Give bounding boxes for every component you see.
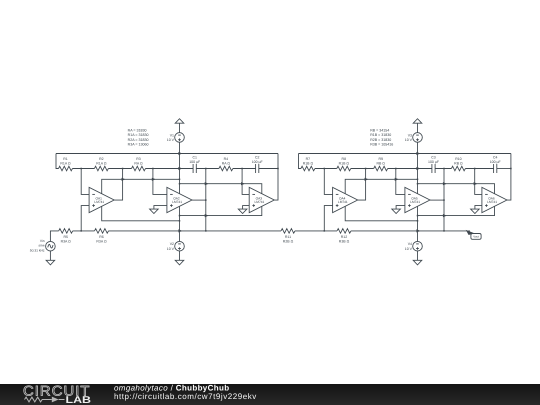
svg-text:LM741: LM741 <box>255 200 265 204</box>
resistor R12 <box>337 229 351 234</box>
wire OA3 Vplus from supply rail <box>180 184 262 194</box>
svg-text:R3A Ω: R3A Ω <box>96 240 107 244</box>
svg-text:R1A Ω: R1A Ω <box>60 162 71 166</box>
svg-text:10 V: 10 V <box>405 247 413 251</box>
wire OA3 Vminus to supply rail <box>180 206 262 215</box>
wire hop marks <box>122 152 478 233</box>
svg-text:C2: C2 <box>255 156 260 160</box>
svg-text:RA Ω: RA Ω <box>134 162 143 166</box>
ground OA6 plus input <box>471 206 482 214</box>
svg-text:RB Ω: RB Ω <box>376 162 385 166</box>
svg-text:R1A = 31830: R1A = 31830 <box>128 133 149 137</box>
resistor R3 <box>132 166 146 171</box>
svg-text:R2A = 31830: R2A = 31830 <box>128 138 149 142</box>
wire bottom rail R6 to R11 <box>109 230 282 232</box>
ground below V4 <box>413 251 422 265</box>
wire top feedback rail right stage <box>299 153 511 155</box>
ground OA5 plus input <box>392 206 405 214</box>
wire R1-R2 <box>73 168 95 170</box>
wire R4-C2 <box>233 168 256 170</box>
svg-text:R1B = 31830: R1B = 31830 <box>370 133 391 137</box>
svg-text:R10: R10 <box>455 157 461 161</box>
svg-text:10 V: 10 V <box>167 247 175 251</box>
op-amp OA3 <box>249 187 274 212</box>
wire R10-C4 <box>465 168 493 170</box>
label OA2 <box>172 196 182 204</box>
svg-text:LM741: LM741 <box>338 200 348 204</box>
capacitor C4 <box>494 164 497 173</box>
resistor R6 <box>95 229 109 234</box>
resistor R1 <box>59 166 73 171</box>
resistor R8 <box>337 166 351 171</box>
svg-text:LM741: LM741 <box>410 200 420 204</box>
svg-text:R3B = 105416: R3B = 105416 <box>370 143 393 147</box>
ground below V2 <box>175 251 184 265</box>
wire OA4 Vminus pin to supply rail <box>345 206 417 221</box>
resistor R4 <box>219 166 233 171</box>
svg-text:RB = 34154: RB = 34154 <box>370 128 389 132</box>
logo resistor zigzag <box>25 397 52 402</box>
svg-text:100 µF: 100 µF <box>189 160 200 164</box>
wire OA2 Vminus supply rail lower to V2 <box>179 206 181 241</box>
svg-text:LM741: LM741 <box>172 200 182 204</box>
wire node R3C1 down to OA2 minus <box>153 169 167 195</box>
label OA3 <box>255 196 265 204</box>
node junction dots <box>80 168 511 232</box>
wire C3R10 node down to bottom rail <box>443 169 445 231</box>
ground OA3 plus input <box>238 206 249 214</box>
wire node R9C3 down to OA5 minus <box>396 169 405 195</box>
svg-text:Vout: Vout <box>473 235 479 239</box>
wire OA6 Vminus to supply rail <box>418 206 495 215</box>
ground flipped above V3 <box>413 119 422 133</box>
wire R3-C1 <box>146 168 194 170</box>
wire C3-R10 <box>435 168 451 170</box>
wire node R10C4 down to OA6 minus <box>475 169 482 195</box>
svg-text:RA Ω: RA Ω <box>222 162 231 166</box>
resistor R5 <box>59 229 73 234</box>
svg-text:R2B = 31830: R2B = 31830 <box>370 138 391 142</box>
wire OA5 output to C3R10 node vertical <box>430 199 444 201</box>
wire OA1 Vplus pin to supply rail <box>102 179 180 194</box>
svg-text:R2B Ω: R2B Ω <box>283 240 294 244</box>
svg-text:V1: V1 <box>170 133 174 137</box>
svg-text:R6: R6 <box>99 235 104 239</box>
svg-text:R8: R8 <box>342 157 347 161</box>
ground flipped above V1 <box>175 119 184 133</box>
svg-text:R1: R1 <box>63 157 68 161</box>
svg-text:10 V: 10 V <box>405 138 413 142</box>
svg-text:http://circuitlab.com/cw7t9jv2: http://circuitlab.com/cw7t9jv229ekv <box>114 392 257 401</box>
label Vin <box>30 239 45 253</box>
wire node R7R8 down to OA4 minus <box>324 169 332 195</box>
svg-text:LM741: LM741 <box>487 200 497 204</box>
svg-text:R1B Ω: R1B Ω <box>339 162 350 166</box>
wire OA2 output to C1R4 node vertical <box>192 199 206 201</box>
wire right edge OA3 output to top rail <box>274 154 278 201</box>
voltage source V4 <box>413 241 423 251</box>
op-amp OA6 <box>482 187 507 212</box>
wire C1R4 node down to bottom rail <box>205 169 207 231</box>
logo arrow <box>52 397 59 403</box>
wire R11-R12 <box>295 230 337 232</box>
resistor R7 <box>301 166 315 171</box>
wire R2-R3 <box>108 168 131 170</box>
resistor R9 <box>374 166 388 171</box>
svg-text:R1B Ω: R1B Ω <box>303 162 314 166</box>
svg-text:LM741: LM741 <box>94 200 104 204</box>
voltage source V3 <box>413 133 423 143</box>
svg-text:C1: C1 <box>192 156 197 160</box>
voltage source V2 <box>175 241 185 251</box>
wire left edge drop right stage <box>299 154 301 169</box>
capacitor C3 <box>432 164 435 173</box>
op-amp OA2 <box>167 187 192 212</box>
wire R7-R8 <box>315 168 337 170</box>
op-amp OA4 <box>333 187 358 212</box>
wire R8-R9 <box>351 168 374 170</box>
svg-text:R5: R5 <box>63 235 68 239</box>
svg-text:R3A = 13060: R3A = 13060 <box>128 143 149 147</box>
svg-text:100 µF: 100 µF <box>490 160 501 164</box>
svg-text:R7: R7 <box>306 157 311 161</box>
svg-text:10 V: 10 V <box>167 138 175 142</box>
wire R12 to Vout tap <box>351 230 470 232</box>
voltage source V1 <box>175 133 185 143</box>
wire R9-C3 <box>388 168 432 170</box>
wire C1-R4 <box>196 168 219 170</box>
svg-text:V2: V2 <box>170 242 174 246</box>
svg-text:LAB: LAB <box>66 395 92 405</box>
svg-text:R12: R12 <box>341 235 347 239</box>
wire V1 to OA2 Vplus supply rail upper <box>179 142 181 194</box>
wire node R4C2 down to OA3 minus <box>242 169 249 195</box>
op-amp OA5 <box>405 187 430 212</box>
wire R5-R6 <box>73 230 95 232</box>
label OA5 <box>410 196 420 204</box>
wire OA6 Vplus from supply rail <box>418 184 495 194</box>
svg-text:100 µF: 100 µF <box>428 160 439 164</box>
wire left edge drop <box>56 154 59 169</box>
wire C4-right edge <box>497 168 511 170</box>
resistor R11 <box>281 229 295 234</box>
wire V3 to OA5 Vplus supply rail upper <box>417 142 419 194</box>
svg-text:R9: R9 <box>378 157 383 161</box>
wire node R1R2 down to OA1 minus <box>81 169 89 195</box>
svg-text:C4: C4 <box>493 156 498 160</box>
ground OA2 plus input <box>150 206 167 214</box>
capacitor C1 <box>193 164 196 173</box>
wire top feedback rail left stage <box>56 153 278 155</box>
wire OA4 Vplus pin to supply rail <box>345 179 417 194</box>
svg-text:V4: V4 <box>408 242 412 246</box>
resistor R2 <box>94 166 108 171</box>
wire OA1 output feedback to R2R3 node <box>114 169 122 201</box>
wire right edge OA6 output to top rail <box>507 154 511 201</box>
op-amp OA1 <box>89 187 114 212</box>
resistor R10 <box>451 166 465 171</box>
svg-text:sine: sine <box>39 244 45 248</box>
svg-text:R1A Ω: R1A Ω <box>96 162 107 166</box>
svg-text:R2: R2 <box>99 157 104 161</box>
svg-text:100 µF: 100 µF <box>252 160 263 164</box>
annotation left stage values <box>128 128 149 146</box>
ground below Vin <box>46 251 55 265</box>
svg-text:R4: R4 <box>224 157 229 161</box>
svg-text:50.31 kHz: 50.31 kHz <box>30 249 45 253</box>
label OA6 <box>487 196 497 204</box>
svg-text:R3: R3 <box>136 157 141 161</box>
svg-text:Vin: Vin <box>40 239 45 243</box>
wire Vin up to bottom rail <box>50 231 58 242</box>
wire OA4 plus to bottom rail <box>324 206 332 231</box>
wire OA1 Vminus pin to supply rail <box>102 206 180 221</box>
svg-text:R11: R11 <box>285 235 291 239</box>
wire OA1 plus to bottom rail <box>81 206 89 231</box>
svg-text:RA = 31830: RA = 31830 <box>128 128 147 132</box>
wire OA5 Vminus supply rail lower to V4 <box>417 206 419 241</box>
annotation right stage values <box>370 128 393 146</box>
svg-text:RB Ω: RB Ω <box>454 162 463 166</box>
label OA1 <box>94 196 104 204</box>
label OA4 <box>338 196 348 204</box>
wire OA4 output feedback to R8R9 node <box>358 169 366 201</box>
svg-text:V3: V3 <box>408 133 412 137</box>
capacitor C2 <box>256 164 259 173</box>
node Vout flag <box>466 230 481 239</box>
svg-text:R3B Ω: R3B Ω <box>339 240 350 244</box>
wire C2-right edge <box>259 168 278 170</box>
voltage source Vin sine <box>46 241 56 251</box>
svg-text:R3A Ω: R3A Ω <box>61 240 72 244</box>
svg-text:C3: C3 <box>431 156 436 160</box>
